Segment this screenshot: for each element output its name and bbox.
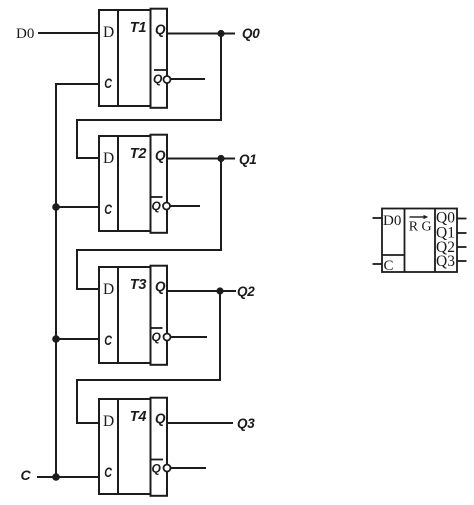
node Q0 junction <box>217 30 224 37</box>
svg-text:Q0: Q0 <box>242 26 260 41</box>
node clock junction T3 <box>52 335 60 343</box>
svg-text:D: D <box>103 24 114 41</box>
wire D0 input <box>38 32 99 34</box>
svg-text:C: C <box>104 201 112 217</box>
svg-text:C: C <box>104 464 112 480</box>
pin label Qbar (T2) with overline <box>151 197 163 213</box>
flip-flop T3 <box>99 266 167 365</box>
svg-text:Q: Q <box>152 462 162 476</box>
svg-text:Q3: Q3 <box>436 253 455 270</box>
wire Qbar T3 stub <box>171 336 207 338</box>
svg-text:C: C <box>104 332 112 348</box>
node Q1 junction <box>217 155 224 162</box>
inversion bubble Qbar T1 <box>164 76 171 83</box>
wire U1 C input stub <box>373 263 383 265</box>
svg-text:T3: T3 <box>130 277 147 293</box>
wire Qbar T1 stub <box>171 78 205 80</box>
svg-text:Q: Q <box>155 411 166 426</box>
inversion bubble Qbar T3 <box>164 334 171 341</box>
flip-flop T4 <box>99 398 167 496</box>
inversion bubble Qbar T2 <box>163 203 170 210</box>
svg-text:Q2: Q2 <box>237 284 255 299</box>
svg-text:Q: Q <box>153 72 163 86</box>
svg-text:T4: T4 <box>130 409 147 425</box>
svg-text:D: D <box>103 150 114 167</box>
wire T2 Q output to Q1 <box>167 158 235 160</box>
wire Q0 to T2 D <box>77 34 221 159</box>
svg-text:Q1: Q1 <box>239 152 256 167</box>
wire U1 Q1 output stub <box>457 232 467 234</box>
node Q2 junction <box>216 287 223 294</box>
svg-text:D: D <box>103 413 114 430</box>
svg-text:Q3: Q3 <box>237 416 255 431</box>
wire T3 C input <box>56 338 99 340</box>
wire Qbar T2 stub <box>170 205 200 207</box>
flip-flop T2 <box>99 135 167 233</box>
wire U1 Q3 output stub <box>457 260 467 262</box>
svg-text:C: C <box>384 258 394 274</box>
svg-text:RG: RG <box>409 220 435 235</box>
svg-text:Q: Q <box>155 279 166 294</box>
svg-text:C: C <box>104 75 112 91</box>
svg-text:D0: D0 <box>383 213 401 229</box>
svg-text:C: C <box>21 467 32 483</box>
svg-text:Q: Q <box>152 199 162 213</box>
svg-text:D: D <box>103 281 114 298</box>
register symbol U1 (RG) <box>382 209 457 273</box>
pin label Qbar (T3) with overline <box>151 328 163 344</box>
svg-text:Q: Q <box>152 330 162 344</box>
wire T1 C input <box>56 84 99 477</box>
wire T3 Q output to Q2 <box>167 290 236 292</box>
svg-text:Q: Q <box>155 148 166 163</box>
label U1 RG with shift arrow <box>409 215 435 235</box>
wire T4 Q output to Q3 <box>167 422 233 424</box>
svg-text:T1: T1 <box>130 20 147 36</box>
wire Q2 to T4 D <box>77 291 220 423</box>
wire Q1 to T3 D <box>77 159 221 290</box>
flip-flop T1 <box>99 9 167 108</box>
svg-text:T2: T2 <box>130 146 147 162</box>
inversion bubble Qbar T4 <box>164 465 171 472</box>
svg-text:Q: Q <box>155 22 166 37</box>
wire U1 Q0 output stub <box>457 218 467 220</box>
wire T2 C input <box>56 206 99 208</box>
pin label Qbar (T4) with overline <box>151 460 163 476</box>
node clock junction T4 <box>52 473 60 481</box>
svg-text:D0: D0 <box>16 26 34 42</box>
wire Qbar T4 stub <box>171 467 206 469</box>
pin label Qbar (T1) with overline <box>153 70 166 86</box>
wire U1 D0 input stub <box>373 217 383 219</box>
wire U1 Q2 output stub <box>457 246 467 248</box>
wire C input <box>37 476 99 478</box>
wire T1 Q output to Q0 <box>167 33 235 35</box>
node clock junction T2 <box>52 203 60 211</box>
